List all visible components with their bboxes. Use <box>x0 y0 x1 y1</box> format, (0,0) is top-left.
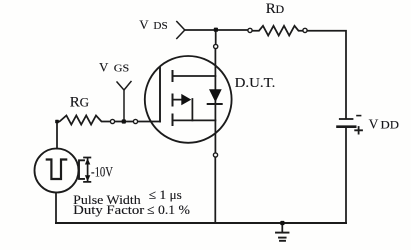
svg-text:V: V <box>99 59 109 74</box>
svg-text:V: V <box>369 116 379 131</box>
svg-text:D.U.T.: D.U.T. <box>235 76 276 91</box>
svg-text:GS: GS <box>114 62 130 74</box>
svg-text:R: R <box>266 1 276 17</box>
svg-text:Duty Factor: Duty Factor <box>73 202 145 217</box>
svg-text:≤ 0.1 %: ≤ 0.1 % <box>147 202 190 217</box>
svg-text:G: G <box>80 94 89 109</box>
svg-text:DS: DS <box>153 21 167 32</box>
svg-text:R: R <box>70 94 80 110</box>
svg-text:DD: DD <box>381 119 400 131</box>
svg-text:V: V <box>139 17 149 32</box>
svg-text:≤ 1 μs: ≤ 1 μs <box>149 187 182 202</box>
svg-text:D: D <box>276 2 285 16</box>
svg-text:-10V: -10V <box>91 164 113 180</box>
